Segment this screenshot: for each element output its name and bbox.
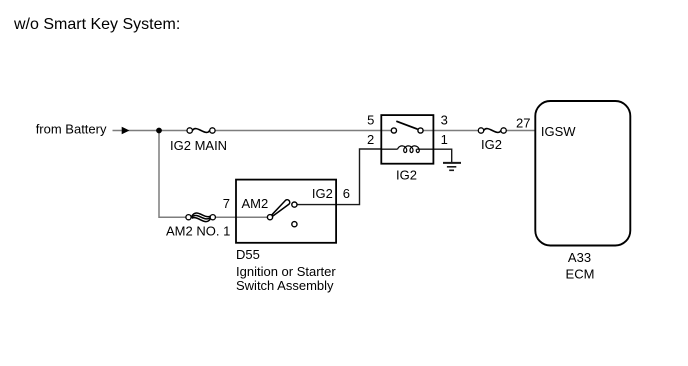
svg-text:6: 6 — [343, 186, 350, 201]
svg-text:3: 3 — [441, 112, 448, 127]
svg-text:IG2: IG2 — [396, 167, 417, 182]
svg-text:1: 1 — [441, 132, 448, 147]
svg-text:IG2: IG2 — [481, 137, 502, 152]
svg-text:IGSW: IGSW — [541, 124, 576, 139]
svg-text:Switch Assembly: Switch Assembly — [236, 278, 334, 293]
svg-text:2: 2 — [367, 132, 374, 147]
svg-text:Ignition or Starter: Ignition or Starter — [236, 264, 336, 279]
svg-text:AM2 NO. 1: AM2 NO. 1 — [166, 224, 230, 239]
svg-text:7: 7 — [223, 196, 230, 211]
svg-text:AM2: AM2 — [242, 196, 269, 211]
svg-text:ECM: ECM — [566, 267, 595, 282]
svg-text:w/o Smart Key System:: w/o Smart Key System: — [13, 16, 180, 33]
svg-text:IG2 MAIN: IG2 MAIN — [170, 138, 227, 153]
svg-text:27: 27 — [516, 116, 530, 131]
svg-text:5: 5 — [367, 113, 374, 128]
svg-text:IG2: IG2 — [312, 186, 333, 201]
svg-text:D55: D55 — [236, 247, 260, 262]
svg-text:from Battery: from Battery — [36, 121, 107, 136]
svg-text:A33: A33 — [568, 250, 591, 265]
